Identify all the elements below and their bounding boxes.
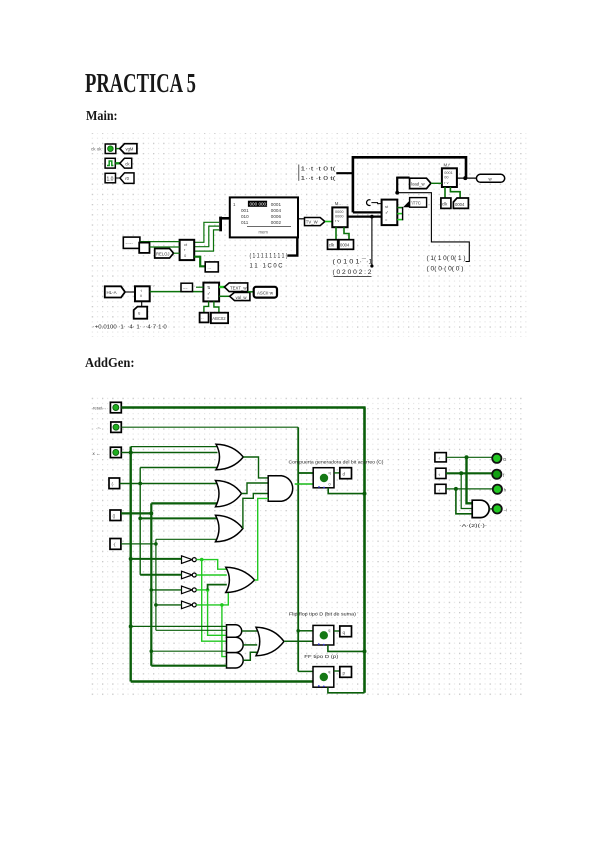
svg-text:−⋅−⋅: −⋅−⋅ (126, 241, 134, 246)
wire (431, 182, 442, 184)
wire (116, 177, 121, 179)
wire clk R3 (444, 187, 446, 198)
output square q (340, 626, 352, 637)
bus register2 to JK (348, 215, 382, 219)
svg-text:·A·(2)(·)·: ·A·(2)(·)· (459, 523, 487, 528)
svg-text:( 0( 0·( 0( 0 ): ( 0( 0·( 0( 0 ) (427, 266, 464, 273)
section label AddGen (85, 356, 134, 372)
svg-text:0001: 0001 (271, 202, 282, 207)
wire v2 vertical (139, 468, 141, 575)
wire NOT1 in (129, 557, 182, 561)
wire pin2 row (121, 426, 298, 428)
svg-text:001: 001 (241, 208, 249, 213)
ascii display (254, 287, 277, 298)
wire green counter out bit0 (194, 222, 219, 242)
wire v4 vertical (155, 539, 157, 630)
grid dots (88, 133, 529, 337)
svg-text:TEXT_w: TEXT_w (230, 286, 247, 291)
wire ANDc in2 (151, 665, 226, 667)
dash box (181, 283, 193, 291)
output square d (340, 468, 352, 479)
svg-text:FF tipo D (p): FF tipo D (p) (304, 654, 339, 659)
component B1 (139, 243, 149, 253)
wire pin2 vertical (296, 427, 300, 671)
svg-text:···: ··· (151, 283, 155, 288)
OR gate 1 (216, 444, 243, 470)
svg-text:0006: 0006 (271, 214, 282, 219)
wire counter carry out (194, 257, 205, 267)
svg-text:clk: clk (329, 243, 335, 248)
wire v4 top to OR3 in2 (156, 538, 217, 540)
wire U4 down right (214, 301, 219, 312)
subcircuit box FF0 (313, 468, 334, 489)
wire R2 row (446, 471, 492, 475)
svg-text:·(: ·( (113, 542, 116, 547)
svg-text:x ←: x ← (93, 451, 101, 456)
wire to FF2 in1 (298, 670, 313, 672)
svg-text:RELOJ: RELOJ (156, 251, 170, 256)
annotation reg2 underline (334, 275, 372, 277)
wire vR1 (467, 457, 473, 503)
wire (115, 162, 120, 164)
svg-text:reset→: reset→ (93, 406, 107, 411)
wire green counter out bit2 (194, 230, 219, 251)
wire ANDb out (243, 644, 257, 646)
AND gate right (472, 500, 489, 517)
grid dots (88, 395, 522, 698)
wire ANDb in2 (150, 649, 227, 653)
wire v1 vertical (129, 447, 131, 682)
svg-text:0: 0 (329, 483, 331, 487)
wire pin5 row (121, 511, 153, 515)
tunnel HEX (105, 286, 125, 297)
wire (150, 246, 180, 248)
decoder U4 (203, 283, 219, 302)
svg-text:TV_W: TV_W (306, 220, 319, 225)
svg-text:HL-A: HL-A (107, 290, 117, 295)
wire FF1 clock (328, 645, 367, 653)
ROM out wire (298, 218, 305, 220)
counter U2 (180, 240, 195, 260)
box D1 (200, 313, 209, 323)
wire FF1 out (334, 630, 340, 632)
wire en R2 (344, 227, 349, 240)
svg-text:q: q (329, 471, 331, 475)
wire ANDr out (489, 508, 492, 510)
LED 1 (492, 454, 507, 463)
button A (105, 144, 116, 154)
tunnel TV_W (305, 218, 325, 226)
JK out stubs (397, 207, 402, 220)
wire annotation to bus (336, 172, 354, 174)
svg-text:1 1 1 C 0 C: 1 1 1 C 0 C (250, 262, 283, 269)
register R3 (442, 168, 457, 187)
svg-text:( 1( 1 0( 0( 1 ): ( 1( 1 0( 0( 1 ) (427, 255, 466, 262)
svg-text:load_w: load_w (411, 181, 426, 186)
bus into JK upper (353, 211, 382, 213)
box D2 (211, 313, 228, 324)
wire pin4 row to OR2 (120, 482, 217, 486)
LED 4 (493, 504, 507, 513)
wire (116, 148, 120, 150)
annotation bracket mid (299, 165, 336, 183)
label box (123, 237, 140, 248)
tunnel load_w (410, 178, 431, 188)
wire OR1 out (243, 457, 268, 478)
svg-text:0004: 0004 (340, 243, 350, 248)
tunnel below B2 (134, 307, 148, 319)
wire NOT4 out (196, 603, 223, 607)
wire NOT1 branch to ANDb (202, 560, 227, 642)
wire FF2 out (334, 670, 340, 672)
svg-text:1.0: 1.0 (107, 177, 114, 183)
OR gate 3 (216, 515, 243, 542)
svg-text:·i: ·i (438, 472, 440, 477)
svg-text:( 1 1 1 1 1 1 1 1 ): ( 1 1 1 1 1 1 1 1 ) (250, 253, 288, 260)
tunnel TEXTO (224, 283, 247, 292)
subcircuit box FF1 (313, 625, 334, 645)
wire (325, 221, 332, 223)
LED 2 (492, 470, 505, 479)
input pin 5 (110, 510, 121, 521)
output pin W (476, 174, 504, 182)
wire v3 vertical (150, 503, 152, 665)
wire OR3 out (243, 494, 268, 529)
wire out2 (219, 295, 230, 297)
wire hex to decoder (150, 291, 204, 293)
tunnel ck (120, 158, 132, 168)
wire R3 out (457, 176, 477, 180)
svg-text:⋅~⋅: ⋅~⋅ (96, 426, 101, 431)
wire to FF1 in1 (298, 630, 313, 632)
tunnel RELOJ (155, 249, 174, 259)
wire R1 row (446, 455, 491, 459)
wire clock top (121, 406, 365, 409)
enable box R3 (453, 198, 468, 208)
wire OR5 out (284, 640, 313, 642)
svg-text:M.r: M.r (444, 163, 451, 168)
wire to box1 in1 (298, 472, 313, 474)
wire ROM bottom out (288, 237, 298, 255)
JK component U3 (382, 200, 398, 226)
enable box R2 (339, 240, 354, 250)
svg-text:0004: 0004 (455, 202, 465, 207)
svg-text:ii: ii (140, 293, 142, 298)
clock input C (367, 200, 382, 206)
wire ANDa in2 (156, 629, 227, 631)
svg-text:1··t ·t 0 t(: 1··t ·t 0 t( (301, 166, 336, 172)
OR gate 5 (256, 627, 284, 655)
svg-text:val_w: val_w (236, 295, 248, 300)
component B2 (135, 286, 150, 301)
svg-text:ck ok: ck ok (91, 147, 102, 152)
wire ANDc out (243, 652, 257, 660)
wire (125, 291, 135, 293)
svg-text:(·: (· (112, 482, 115, 487)
clk box R3 (441, 198, 451, 208)
tunnel VAL (230, 292, 250, 300)
wire v3 top to OR2 in2 (151, 502, 217, 504)
svg-text:ABC02: ABC02 (212, 316, 226, 321)
clock component (105, 158, 115, 168)
wire FF0 out (334, 472, 340, 474)
wire (174, 252, 180, 254)
AND gate a (227, 625, 242, 637)
svg-text:( 0 2 0 0 2 : 2: ( 0 2 0 0 2 : 2 (333, 269, 373, 276)
OR gate 4 (226, 567, 255, 592)
svg-text:−i: −i (503, 507, 507, 512)
wire probe drop (371, 217, 373, 267)
wire NOT1 out to OR4 (196, 558, 227, 569)
wire NOT3 in (150, 588, 182, 592)
svg-text:r v: r v (335, 219, 339, 223)
input pin 2 (111, 422, 122, 432)
wire NOT3 up to OR4 in3 (208, 585, 227, 590)
wire AND out (295, 483, 314, 485)
svg-text:r0: r0 (125, 176, 129, 181)
wire to ascii (248, 291, 254, 293)
NOT gate 4 (182, 601, 197, 609)
svg-text:000 0001: 000 0001 (250, 202, 270, 207)
wire FF2 clock (328, 687, 365, 693)
wire NOT3 out jog (196, 588, 209, 592)
wire vR2 (461, 473, 472, 508)
svg-text:mem: mem (259, 230, 269, 235)
section label Main (86, 109, 118, 125)
pin constant (105, 173, 115, 183)
svg-text:Compuerta generadora del bit a: Compuerta generadora del bit acarreo (C) (289, 460, 385, 465)
wire ANDa out (242, 630, 257, 632)
wire NOT4 down to ANDc (222, 605, 227, 657)
register R2 (332, 207, 347, 227)
wire pin3 row to OR1 (121, 451, 217, 455)
svg-text:M..: M.. (335, 201, 341, 206)
wire FF0 clock (328, 488, 366, 496)
svg-text:✓: ✓ (385, 210, 389, 215)
svg-text:...: ... (208, 265, 212, 270)
wire out1 bright (219, 286, 225, 288)
svg-text:0000: 0000 (335, 210, 343, 214)
svg-text:010: 010 (241, 214, 249, 219)
svg-text:−−: −− (183, 285, 188, 290)
ROM U1 (230, 197, 298, 237)
input pin R3 (435, 484, 446, 493)
svg-text:Flip flop tipo D (bit de suma): Flip flop tipo D (bit de suma) (289, 612, 357, 617)
svg-text:1··t ·t 0 t(: 1··t ·t 0 t( (301, 176, 336, 182)
AND gate c (227, 653, 244, 668)
svg-text:r v: r v (444, 181, 448, 185)
wire in2 (196, 286, 203, 288)
clk box R2 (328, 240, 338, 250)
wire ANDa in1 (129, 624, 227, 628)
input pin 3 (110, 447, 121, 457)
tunnel r0 (120, 173, 134, 184)
AND gate big (268, 476, 293, 501)
svg-text:00: 00 (444, 176, 448, 180)
svg-text:q: q (328, 629, 330, 633)
wire pin6 row (121, 542, 158, 546)
AND gate b (227, 637, 244, 652)
probe box (205, 262, 218, 272)
svg-text:(|: (| (113, 514, 116, 519)
wire OR4 out up to AND big (255, 498, 269, 580)
wire (141, 301, 143, 306)
wire bottom long (131, 680, 313, 682)
input pin 6 (110, 539, 121, 550)
svg-text:0004: 0004 (271, 208, 282, 213)
subcircuit box FF2 (313, 667, 334, 688)
wire clock vertical (363, 408, 366, 693)
svg-text:·+0.0100 ·1· ·4· 1· ··4·7·1·0: ·+0.0100 ·1· ·4· 1· ··4·7·1·0 (93, 325, 167, 331)
input pin 1 clock (110, 402, 121, 413)
wire NOT4 up jog to OR4 (222, 589, 232, 605)
svg-text:G: G (503, 457, 507, 462)
tunnel vgm (120, 144, 137, 154)
svg-text:0001: 0001 (444, 171, 452, 175)
svg-text:0000: 0000 (335, 215, 343, 219)
input pin R1 (435, 453, 446, 462)
wire v2 top to OR1 in2 (140, 467, 218, 469)
wire v1 top to OR1 in1 (131, 446, 218, 448)
wire (140, 241, 180, 243)
wire v2 branch to OR3 in1 (138, 517, 217, 521)
wire Z path (395, 177, 409, 195)
wire probe L (397, 193, 469, 262)
svg-text:ASCII⋅w: ASCII⋅w (257, 291, 274, 296)
svg-text:( 0 1 0 1·¯·1: ( 0 1 0 1·¯·1 (333, 259, 374, 266)
wire NOT2 in (140, 574, 181, 576)
wire en R3 (450, 187, 460, 198)
input pin R2 (436, 468, 447, 478)
wire NOT3 down to ANDa (208, 590, 227, 635)
wire R3 row (446, 487, 492, 491)
wire OR2 out (242, 483, 269, 494)
input pin 4 (109, 478, 120, 489)
svg-text:vgM: vgM (126, 147, 134, 152)
svg-text:\T7C: \T7C (412, 200, 421, 205)
wire green counter out bit1 (194, 226, 219, 247)
output square p (340, 667, 352, 678)
wire clk R2 (335, 227, 337, 240)
svg-text:clk: clk (442, 202, 448, 207)
wire U4 down left (204, 301, 209, 312)
wire vR3 (456, 489, 472, 514)
svg-text:0002: 0002 (271, 220, 282, 225)
svg-text:··: ·· (201, 316, 204, 321)
wire NOT4 in (154, 603, 181, 607)
tunnel ESC (403, 198, 427, 208)
NOT gate 3 (182, 586, 197, 594)
svg-text:011: 011 (241, 220, 249, 225)
LED 3 (493, 485, 507, 494)
splitter black bus (219, 217, 230, 232)
NOT gate 2 (182, 571, 197, 579)
OR gate 2 (216, 481, 242, 507)
wire NOT2 out to OR4 (196, 574, 227, 576)
top feedback bus (353, 157, 466, 212)
svg-text:q: q (328, 670, 330, 674)
NOT gate 1 (182, 556, 197, 564)
title (85, 68, 196, 99)
